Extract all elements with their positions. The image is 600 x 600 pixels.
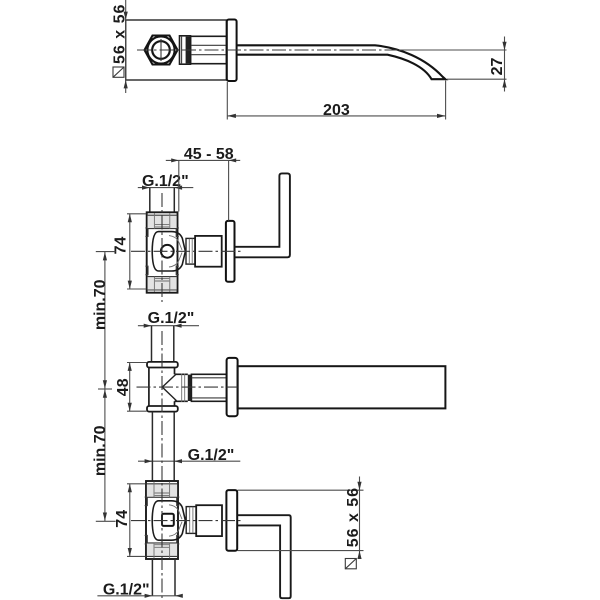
nut inner circle: [152, 41, 170, 59]
tick min70 bottom: [96, 520, 116, 522]
T flare top: [147, 362, 178, 368]
arrow up 48: [128, 363, 132, 371]
svg-text:56 x 56: 56 x 56: [345, 487, 362, 547]
thread lines top body1: [147, 215, 177, 228]
wall box outline: [126, 20, 227, 80]
valve body 2: [146, 481, 178, 559]
ext 45-58 left: [178, 160, 180, 211]
thread lines bottom body2: [146, 543, 177, 557]
arrow right 203: [437, 114, 446, 118]
wall plate top: [227, 20, 237, 82]
bore lines top body1: [154, 213, 169, 229]
tick min70 top: [96, 251, 116, 253]
tick min70 middle: [98, 388, 112, 390]
square symbol bottom-right: [345, 559, 356, 569]
svg-text:74: 74: [114, 510, 131, 528]
thread shade top body2: [147, 484, 177, 498]
dim sq56b line: [359, 477, 361, 556]
valve body behind plate: [191, 36, 227, 63]
centerline vertical middle: [161, 331, 163, 598]
svg-text:27: 27: [489, 58, 506, 76]
centerline valve2 horizontal: [131, 520, 243, 522]
wall plate body1: [226, 221, 235, 282]
svg-text:48: 48: [115, 378, 132, 396]
arrow down sq56b: [357, 482, 361, 490]
dim G12a line: [138, 187, 194, 189]
svg-text:G.1/2": G.1/2": [103, 582, 150, 599]
collar dark band: [186, 37, 191, 64]
dim 48 line: [129, 363, 131, 412]
connector inner lines: [192, 378, 227, 398]
T flare bottom: [147, 406, 178, 412]
thread shade top body1: [148, 215, 177, 228]
svg-text:203: 203: [323, 102, 350, 119]
svg-text:56 x 56: 56 x 56: [111, 4, 128, 64]
cartridge housing body2: [152, 501, 185, 540]
arrow up min70b: [103, 389, 107, 397]
centerline top spout: [137, 49, 399, 51]
thread shade bottom body2: [147, 543, 177, 557]
arrow up min70a: [103, 252, 107, 260]
pipe below valve2: [152, 559, 175, 596]
spout tube curved: [237, 45, 446, 79]
dim 74b ext lines: [127, 484, 146, 557]
dim G12c line: [138, 460, 240, 462]
neck rings body2: [190, 507, 193, 533]
center square body2: [162, 514, 174, 526]
collar: [180, 36, 191, 64]
collar step line: [181, 36, 183, 64]
housing inner arcs body1: [169, 236, 182, 267]
straight spout tube: [238, 366, 446, 408]
wall plate body2: [226, 490, 237, 551]
arrow down 74b: [128, 548, 132, 556]
arrow right G12c: [145, 459, 153, 463]
center circle body1: [161, 245, 174, 258]
arrow 45-58 right: [229, 158, 237, 162]
arrow right G12b: [144, 324, 152, 328]
dim 203 ext right: [445, 81, 447, 120]
arrow up 74a: [128, 214, 132, 222]
svg-text:G.1/2": G.1/2": [148, 310, 195, 327]
dim sq56 line left: [125, 0, 127, 93]
T body: [149, 368, 175, 407]
arrow down at box top: [124, 12, 128, 20]
cylinder body2: [196, 505, 222, 536]
arrow down min70a: [103, 380, 107, 388]
nut center mark: [160, 39, 162, 61]
dim 27 ext bottom: [447, 78, 507, 80]
dim min70b line: [104, 389, 106, 521]
arrow up 27: [502, 79, 506, 87]
ext 45-58 right: [228, 160, 230, 220]
dim min70a line: [104, 252, 106, 389]
pipe to valve top: [150, 188, 175, 212]
arrow up sq56b: [357, 551, 361, 559]
pipe T to valve2: [152, 412, 174, 481]
square symbol top-left: [113, 67, 124, 77]
bore lines bottom body2: [154, 543, 170, 558]
centerline valve1 horizontal: [131, 250, 244, 252]
housing inner arcs body2: [169, 505, 182, 536]
arrow up at box bottom: [124, 80, 128, 88]
dim 203 line: [227, 115, 445, 117]
cylinder body1: [195, 236, 222, 267]
dim 27 ext top: [399, 49, 507, 51]
dim 48 ext lines: [127, 363, 147, 412]
neck rings body1: [189, 239, 192, 264]
connector tube: [191, 374, 226, 401]
arrow right G12d: [145, 594, 153, 598]
ring ticks: [182, 374, 185, 403]
hex nut: [145, 36, 178, 65]
arrow left G12c: [174, 459, 182, 463]
body1 edge bumps: [145, 228, 178, 275]
arrow 45-58 left: [171, 158, 179, 162]
arrow down 74a: [128, 281, 132, 289]
arrow left 203: [227, 114, 236, 118]
thread lines top body2: [146, 484, 177, 498]
svg-text:min.70: min.70: [92, 279, 109, 330]
valve body 1: [147, 212, 178, 292]
thread lines bottom body1: [147, 277, 177, 290]
centerline vertical upper: [161, 193, 163, 302]
dim 74a ext lines: [127, 214, 146, 289]
branch dark band: [188, 375, 192, 401]
wall plate T: [227, 358, 238, 416]
dim G12b line: [138, 325, 199, 327]
lever down: [237, 515, 290, 598]
neck body2: [186, 507, 196, 534]
arrow right G12a: [142, 186, 150, 190]
dim sq56b ext bottom: [238, 550, 364, 552]
lever up: [235, 173, 290, 257]
dim 74a line: [129, 214, 131, 289]
bore lines bottom body1: [154, 277, 169, 292]
dim 203 ext left: [226, 82, 228, 120]
dim 27 line: [504, 37, 506, 92]
arrow down min70b: [103, 513, 107, 521]
dim 74b line: [129, 484, 131, 557]
centerline T horizontal: [137, 386, 238, 388]
arrow down 48: [128, 403, 132, 411]
dim 45-58 line: [166, 159, 240, 161]
body2 edge bumps: [145, 497, 180, 544]
svg-text:min.70: min.70: [92, 425, 109, 476]
svg-text:G.1/2": G.1/2": [142, 173, 189, 190]
arrow down 27: [502, 42, 506, 50]
svg-text:45 - 58: 45 - 58: [184, 146, 234, 163]
arrow up 74b: [128, 484, 132, 492]
pipe T top: [152, 326, 174, 362]
dim sq56b ext top: [238, 489, 364, 491]
arrow left G12a: [174, 186, 182, 190]
funnel cone: [162, 374, 176, 401]
arrow left G12b: [174, 324, 182, 328]
bore lines top body2: [154, 482, 170, 498]
cartridge housing body1: [152, 232, 185, 271]
thread shade bottom body1: [148, 277, 177, 290]
svg-text:G.1/2": G.1/2": [188, 447, 235, 464]
branch rings: [175, 374, 188, 401]
arrow left G12d: [175, 594, 183, 598]
nut outer circle: [147, 36, 174, 63]
tube lines inside body: [191, 45, 227, 54]
dim G12d line: [97, 595, 182, 597]
neck body1: [186, 238, 195, 264]
